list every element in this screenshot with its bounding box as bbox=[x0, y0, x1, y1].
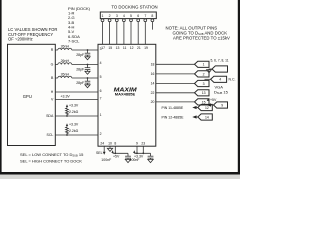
svg-text:26nH: 26nH bbox=[61, 59, 70, 63]
svg-text:13: 13 bbox=[202, 91, 206, 95]
supply +3.3V SDA bbox=[66, 104, 68, 107]
node G-C2 bbox=[87, 64, 89, 66]
node R-C1 bbox=[87, 49, 89, 51]
svg-text:12: 12 bbox=[205, 106, 209, 110]
wire dock7 to pin19 bbox=[144, 22, 146, 45]
svg-text:SEL: SEL bbox=[96, 151, 103, 155]
wire pin18 to dsub1 bbox=[156, 63, 195, 65]
wire nc tag bbox=[205, 78, 211, 80]
net from pin 12 bbox=[162, 115, 198, 119]
GPU box bbox=[8, 44, 56, 145]
svg-text:8: 8 bbox=[151, 14, 153, 18]
svg-text:PIN 12-4885E: PIN 12-4885E bbox=[162, 115, 185, 119]
U1 bottom pin numbers bbox=[100, 142, 145, 146]
node SCL pullup bbox=[66, 134, 68, 136]
svg-text:ARE PROTECTED TO ±15kV: ARE PROTECTED TO ±15kV bbox=[173, 36, 230, 41]
svg-text:MAX4885E: MAX4885E bbox=[115, 92, 136, 96]
svg-text:2.2kΩ: 2.2kΩ bbox=[69, 129, 79, 133]
svg-text:100nF: 100nF bbox=[101, 158, 111, 162]
wire B bbox=[55, 77, 98, 79]
svg-text:4: 4 bbox=[123, 14, 125, 18]
svg-text:SCL: SCL bbox=[46, 133, 53, 137]
svg-text:20: 20 bbox=[151, 100, 155, 104]
supply +5V dsub9 bbox=[207, 98, 217, 106]
svg-text:23: 23 bbox=[141, 142, 145, 146]
svg-text:14: 14 bbox=[151, 82, 155, 86]
svg-text:4: 4 bbox=[100, 61, 102, 65]
svg-text:18: 18 bbox=[151, 63, 155, 67]
ground C1 bbox=[85, 57, 90, 60]
tag dsub pin1 bbox=[195, 61, 210, 67]
svg-text:PIN 11-4885E: PIN 11-4885E bbox=[162, 106, 184, 110]
note pin dock legend bbox=[68, 6, 91, 44]
svg-text:12: 12 bbox=[130, 46, 134, 50]
svg-text:3: 3 bbox=[203, 82, 205, 86]
svg-text:SDA: SDA bbox=[46, 114, 54, 118]
svg-text:2: 2 bbox=[100, 132, 102, 136]
tag dsub pin9 bbox=[214, 102, 228, 108]
wire V bbox=[55, 99, 98, 101]
svg-text:9: 9 bbox=[221, 103, 223, 107]
svg-text:4: 4 bbox=[219, 78, 221, 82]
svg-text:N.C.: N.C. bbox=[229, 78, 236, 82]
supply +3.3V bbox=[133, 150, 135, 153]
wire dock4 to pin11 bbox=[123, 22, 125, 45]
node B-C3 bbox=[87, 77, 89, 79]
svg-text:15: 15 bbox=[202, 100, 206, 104]
wire pin20 to dsub15 bbox=[156, 101, 195, 103]
wire gnd tag bbox=[209, 68, 212, 71]
svg-text:1: 1 bbox=[100, 113, 102, 117]
tag dsub pin13 bbox=[195, 90, 210, 96]
tag dsub pin15 bbox=[195, 99, 210, 105]
ground dsub bbox=[207, 70, 212, 73]
capacitor C4 100nF bbox=[125, 153, 131, 159]
wire dock5 to pin12 bbox=[130, 22, 132, 45]
svg-text:9: 9 bbox=[136, 142, 138, 146]
svg-text:14: 14 bbox=[205, 115, 209, 119]
svg-text:21: 21 bbox=[137, 46, 141, 50]
svg-text:DSUB 15: DSUB 15 bbox=[214, 90, 229, 96]
svg-text:28pF: 28pF bbox=[76, 53, 84, 57]
svg-text:+5V: +5V bbox=[210, 98, 217, 102]
svg-text:16: 16 bbox=[151, 72, 155, 76]
wire dock6 to pin21 bbox=[137, 22, 139, 45]
capacitor C5 100nF bbox=[148, 153, 154, 159]
ground C4 bbox=[125, 159, 130, 162]
resistor R1 2.2k bbox=[66, 107, 69, 116]
svg-text:17: 17 bbox=[101, 46, 105, 50]
capacitor C3 28pF bbox=[85, 78, 91, 85]
svg-text:100nF: 100nF bbox=[130, 158, 140, 162]
capacitor C2 28pF bbox=[85, 65, 91, 72]
U1 right pin numbers bbox=[151, 63, 155, 105]
note LC values bbox=[8, 27, 57, 41]
svg-text:10: 10 bbox=[108, 142, 112, 146]
wire SDA bbox=[55, 115, 98, 117]
ground pin10 bbox=[109, 146, 111, 148]
svg-text:11: 11 bbox=[123, 46, 127, 50]
frame left bbox=[0, 0, 2, 175]
svg-text:7-SCL: 7-SCL bbox=[68, 39, 80, 44]
tag dsub pin4 bbox=[211, 76, 227, 82]
svg-text:5: 5 bbox=[100, 75, 102, 79]
wire G bbox=[55, 64, 98, 66]
U1 left pin numbers bbox=[100, 47, 102, 136]
net from pin 11 bbox=[162, 106, 198, 110]
svg-text:+5V: +5V bbox=[113, 154, 120, 158]
wire H bbox=[55, 91, 98, 93]
resistor R2 2.2k bbox=[66, 126, 69, 135]
wire dock3 to pin13 bbox=[116, 22, 118, 45]
svg-text:G: G bbox=[51, 63, 54, 67]
svg-text:2: 2 bbox=[109, 14, 111, 18]
capacitor C1 28pF bbox=[85, 50, 91, 57]
svg-text:+3.3V: +3.3V bbox=[69, 104, 79, 108]
wire pin9 pin23 to +3.3V node bbox=[134, 146, 150, 153]
wire pin14 to dsub3 bbox=[156, 83, 195, 85]
svg-text:6: 6 bbox=[137, 14, 139, 18]
node SDA pullup bbox=[66, 115, 68, 117]
svg-text:15: 15 bbox=[108, 46, 112, 50]
tag dsub pin12 bbox=[198, 104, 213, 110]
wire SEL pin24 bbox=[103, 146, 105, 152]
frame right bbox=[238, 0, 240, 175]
inductor L3 26nH bbox=[58, 76, 72, 78]
tag dsub pin14 bbox=[198, 114, 213, 120]
wire dock8 stub bbox=[151, 22, 153, 30]
wire pin22 to dsub13 bbox=[156, 92, 195, 94]
svg-text:19: 19 bbox=[144, 46, 148, 50]
svg-text:1: 1 bbox=[203, 63, 205, 67]
wire pin8 to +5V node bbox=[115, 146, 128, 153]
svg-text:1: 1 bbox=[102, 14, 104, 18]
svg-text:3: 3 bbox=[100, 47, 102, 51]
wire dock2 to pin15 bbox=[109, 22, 111, 45]
wire dock1 to pin17 bbox=[102, 22, 104, 45]
svg-text:26nH: 26nH bbox=[61, 73, 70, 77]
svg-text:+3.3V: +3.3V bbox=[69, 123, 79, 127]
svg-text:28pF: 28pF bbox=[76, 68, 84, 72]
inductor L1 26nH bbox=[58, 48, 72, 50]
svg-text:GPU: GPU bbox=[23, 94, 32, 99]
svg-text:7: 7 bbox=[100, 96, 102, 100]
U1 top pin numbers bbox=[101, 46, 148, 50]
wire SCL bbox=[55, 134, 98, 136]
svg-text:22: 22 bbox=[151, 91, 155, 95]
inductor L2 26nH bbox=[58, 63, 72, 65]
svg-text:OF ~200MHz: OF ~200MHz bbox=[8, 36, 33, 41]
dock connector J2 bbox=[100, 12, 156, 22]
ground C2 bbox=[85, 71, 90, 74]
svg-text:26nH: 26nH bbox=[61, 45, 70, 49]
ground C5 bbox=[148, 159, 153, 162]
svg-text:13: 13 bbox=[116, 46, 120, 50]
GPU pin labels bbox=[46, 48, 54, 137]
svg-text:TO DOCKING STATION: TO DOCKING STATION bbox=[111, 4, 157, 9]
frame bottom bbox=[0, 172, 240, 175]
svg-text:+3.3V: +3.3V bbox=[61, 95, 71, 99]
svg-text:7: 7 bbox=[144, 14, 146, 18]
supply +5V bbox=[111, 150, 113, 153]
svg-text:28pF: 28pF bbox=[76, 81, 84, 85]
wire pin16 to dsub2 bbox=[156, 73, 195, 75]
wire R bbox=[55, 49, 98, 51]
svg-text:5, 6, 7, 8, 11: 5, 6, 7, 8, 11 bbox=[211, 59, 229, 63]
supply +3.3V SCL bbox=[66, 123, 68, 126]
svg-text:SEL = HIGH CONNECT TO DOCK: SEL = HIGH CONNECT TO DOCK bbox=[20, 158, 82, 163]
IC U1 MAX4885E bbox=[98, 44, 156, 146]
note SEL truth bbox=[20, 152, 84, 163]
svg-text:5: 5 bbox=[130, 14, 132, 18]
svg-text:2: 2 bbox=[203, 72, 205, 76]
tag dsub gnd bbox=[212, 66, 228, 72]
tag dsub pin3 bbox=[195, 80, 210, 86]
svg-text:2.2kΩ: 2.2kΩ bbox=[69, 110, 79, 114]
svg-text:24: 24 bbox=[100, 142, 104, 146]
svg-text:6: 6 bbox=[100, 89, 102, 93]
note ESD bbox=[166, 25, 231, 40]
svg-text:3: 3 bbox=[116, 14, 118, 18]
ground C3 bbox=[85, 85, 90, 88]
tag dsub pin2 bbox=[195, 71, 210, 77]
svg-text:8: 8 bbox=[114, 142, 116, 146]
